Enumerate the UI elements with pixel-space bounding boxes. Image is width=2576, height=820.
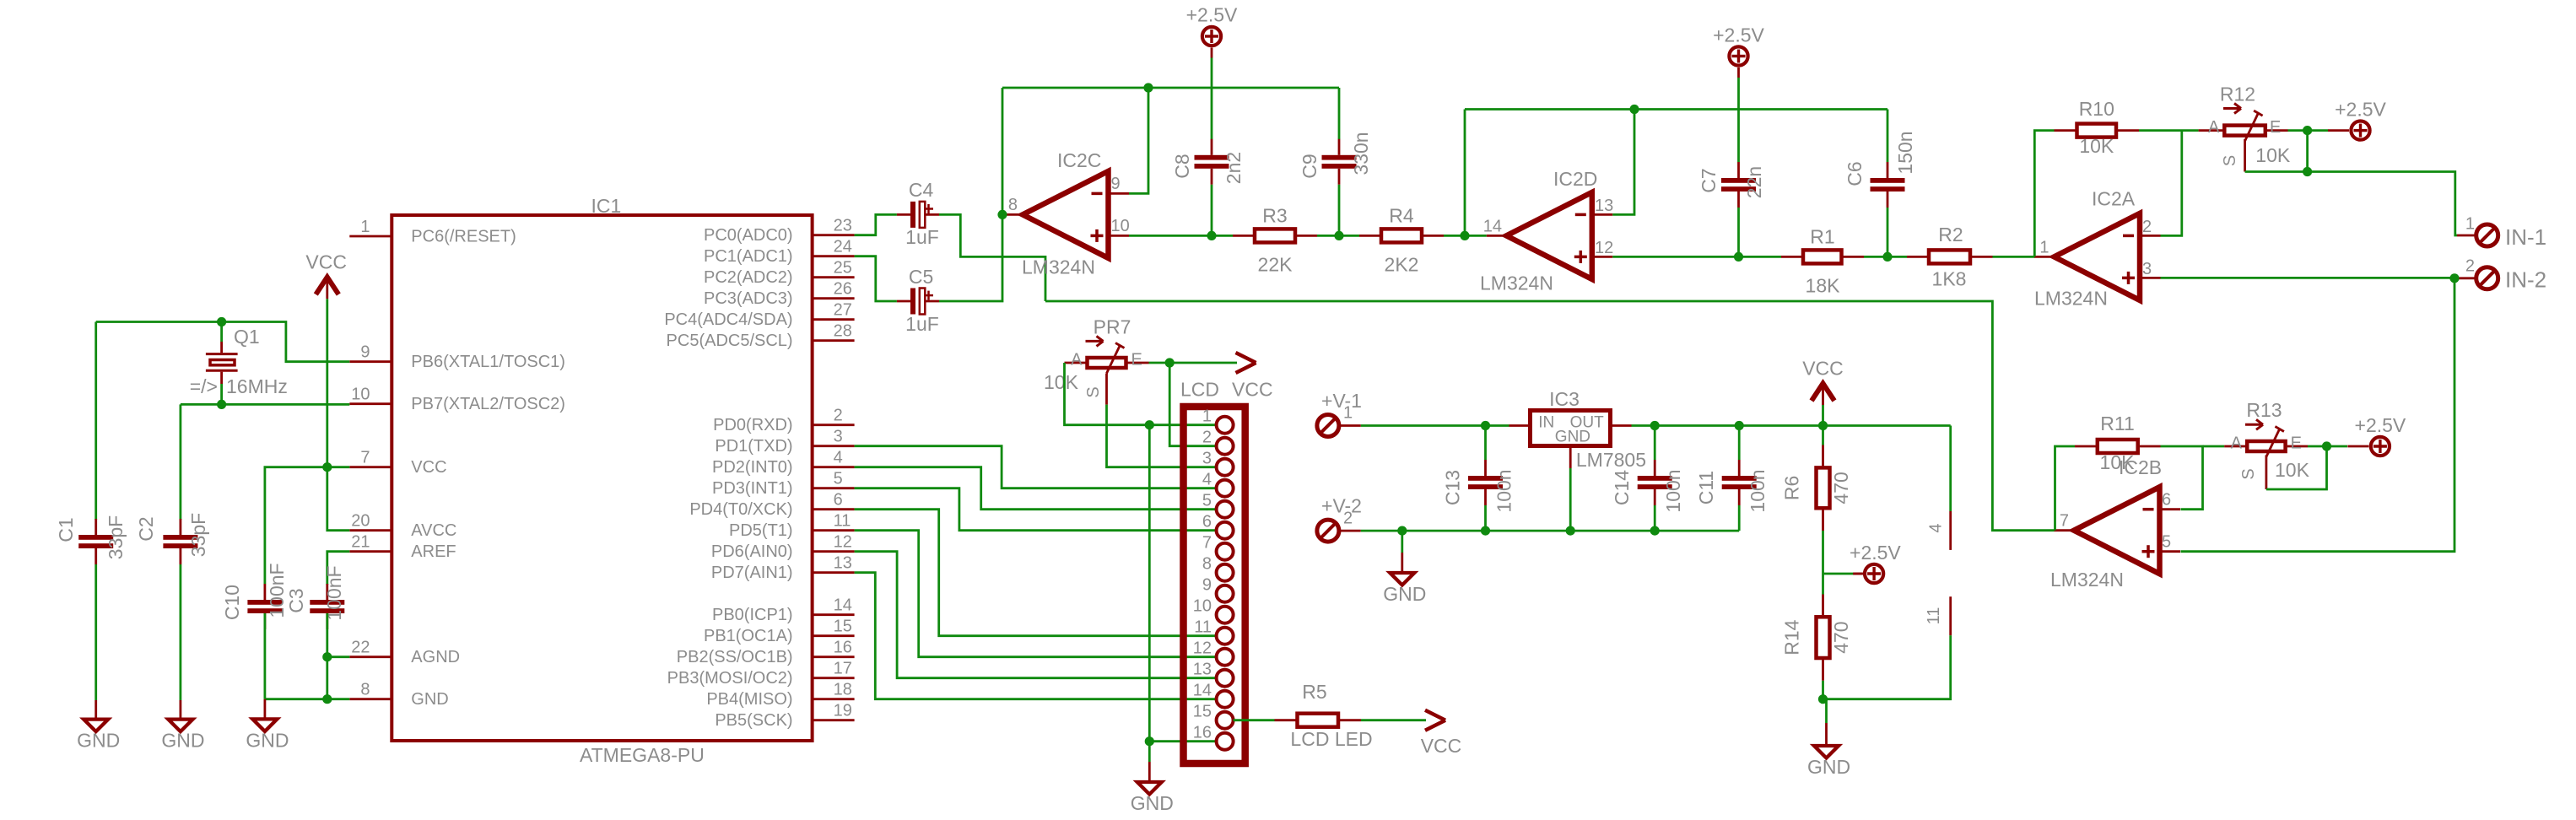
IC1 pin 18 PB4(MISO) [813,698,855,700]
svg-text:26: 26 [834,280,852,299]
connector IN-2 [2476,267,2498,289]
svg-text:330n: 330n [1350,132,1372,175]
wire PR7 S to LCD pin3 [1107,405,1217,467]
svg-text:IC3: IC3 [1549,388,1580,410]
svg-text:14: 14 [834,596,852,615]
svg-text:PD1(TXD): PD1(TXD) [715,437,792,456]
wire pin10 to R3 [1129,235,1212,237]
IC1 pin 15 PB1(OC1A) [813,634,855,637]
svg-text:PC2(ADC2): PC2(ADC2) [704,268,793,287]
svg-text:25: 25 [834,259,852,278]
resistor R1 [1739,250,1888,263]
svg-text:27: 27 [834,301,852,320]
wire pin11 to LCD pin12 [855,531,1217,657]
wire pin6 to LCD pin11 [855,510,1217,636]
resistor R10 [2055,124,2199,138]
svg-text:VCC: VCC [1421,735,1462,757]
svg-text:R10: R10 [2079,98,2114,120]
node junction R13 E [2322,441,2331,450]
wire +V-2 GND row [1339,530,1361,532]
wire IN-2 stub [2454,277,2476,279]
node junction C9 R3 right [1334,231,1343,240]
LCD pin 9 [1217,585,1234,602]
svg-text:2K2: 2K2 [1385,253,1419,275]
svg-text:IN: IN [1538,414,1554,432]
power VCC symbol above R6 [1802,358,1844,406]
wire C6 top from feedback row [1887,110,1889,163]
wire R11 row to R13 [2203,445,2225,448]
wire pin23 to C4 [855,214,897,235]
wire C6 bottom to row [1887,208,1889,256]
svg-text:18K: 18K [1806,274,1841,296]
capacitor C3 [310,584,344,629]
svg-text:33pF: 33pF [187,513,209,557]
R12 wiper arrow [2223,107,2241,110]
svg-text:AVCC: AVCC [411,521,456,540]
wire pin12 to R1 [1612,256,1738,258]
svg-text:C10: C10 [221,585,243,620]
svg-text:10K: 10K [2255,144,2291,166]
svg-text:PB1(OC1A): PB1(OC1A) [704,627,793,645]
wire Q1 top net [96,322,350,362]
wire PR7 E to VCC arrow [1149,362,1238,364]
wire C10 top to VCC node [265,467,327,584]
svg-text:VCC: VCC [411,458,446,477]
svg-text:PC3(ADC3): PC3(ADC3) [704,289,793,308]
wire C7 bottom to row [1737,208,1740,256]
svg-text:R14: R14 [1781,619,1803,655]
svg-text:2: 2 [1202,429,1212,447]
wire pin12 to LCD pin13 [855,552,1217,678]
capacitor C1 [78,519,113,564]
supply +2.5V above C8 [1186,4,1238,58]
node junction R14 GND [1818,694,1828,704]
IC1 pin 6 PD4(T0/XCK) [813,508,855,510]
wire IN-2 riser to pin5 [2181,278,2455,552]
wire C13 bottom lead [1484,505,1487,531]
IC1 pin 24 PC1(ADC1) [813,255,855,257]
LCD pin 2 [1217,438,1234,455]
node junction GND branch [1397,526,1407,536]
svg-text:+2.5V: +2.5V [1186,4,1238,26]
wire pin2 riser [2161,131,2182,236]
svg-text:R1: R1 [1810,225,1834,247]
wire C2 to GND [179,564,181,700]
svg-text:+2.5V: +2.5V [2335,99,2386,121]
LCD pin 8 [1217,564,1234,581]
svg-text:18: 18 [834,681,852,699]
IC1 pin 28 PC5(ADC5/SCL) [813,339,855,342]
R13 wiper arrow [2245,423,2263,426]
svg-text:Q1: Q1 [234,326,260,348]
svg-text:AGND: AGND [411,648,460,666]
svg-text:+2.5V: +2.5V [1713,24,1764,46]
svg-text:3: 3 [2142,260,2152,278]
IC1 pin 21 AREF [349,550,392,553]
node junction IN-2 [2449,273,2459,283]
svg-text:C7: C7 [1698,168,1720,192]
ground GND under LCD [1131,742,1174,814]
svg-text:28: 28 [834,322,852,341]
svg-text:AREF: AREF [411,542,456,561]
connector LCD box [1184,407,1245,763]
svg-text:C13: C13 [1442,470,1464,505]
IC1 pin 16 PB2(SS/OC1B) [813,655,855,658]
node junction IC2C output [997,210,1007,219]
svg-text:PB2(SS/OC1B): PB2(SS/OC1B) [677,648,793,666]
svg-text:S: S [1084,386,1103,397]
wire VCC row riser to pin4 [1949,426,1952,512]
IC1 pin 20 AVCC [349,529,392,531]
svg-text:33pF: 33pF [105,515,127,559]
node junction PR7 E VCC [1165,358,1175,367]
wire R13 E to +2.5V [2308,445,2347,448]
svg-text:2: 2 [834,407,843,425]
node junction C13 bottom [1481,526,1490,536]
wire C4 to long net [939,214,1045,301]
svg-text:2n2: 2n2 [1223,152,1245,184]
supply +2.5V right of R13 [2347,414,2406,456]
LCD pin 7 [1217,543,1234,560]
svg-text:7: 7 [2060,512,2069,531]
svg-text:9: 9 [1111,175,1121,193]
wire IC2D feedback riser [1464,110,1466,236]
svg-text:15: 15 [1193,703,1212,721]
op-amp IC2C [1003,171,1130,258]
wire LCD GND vertical [1148,425,1151,742]
potentiometer R12 [2199,111,2288,141]
IC1 pin 12 PD6(AIN0) [813,550,855,553]
svg-text:VCC: VCC [1802,358,1844,380]
wire VCC to pin20 [327,299,350,531]
svg-text:E: E [2291,434,2302,453]
svg-text:1K8: 1K8 [1932,268,1967,290]
svg-text:20: 20 [351,512,370,531]
svg-text:PD7(AIN1): PD7(AIN1) [711,564,793,582]
wire R13 S lead [2265,456,2267,490]
svg-text:PC4(ADC4/SDA): PC4(ADC4/SDA) [664,310,792,329]
wire S row to IN-1 [2308,172,2457,236]
power VCC arrow after R5 [1421,710,1462,757]
svg-text:8: 8 [1008,196,1018,214]
node junction LCD pin16 GND [1145,736,1154,746]
LCD pin 5 [1217,501,1234,518]
svg-text:GND: GND [1807,756,1850,778]
svg-text:16MHz: 16MHz [226,375,288,397]
wire VCC to R6 [1822,405,1824,445]
wire +V-1 to IC3 [1339,424,1361,427]
node junction Q1 top [217,317,226,326]
svg-text:PC1(ADC1): PC1(ADC1) [704,247,793,266]
svg-text:C4: C4 [909,179,934,201]
svg-text:PB3(MOSI/OC2): PB3(MOSI/OC2) [667,669,793,688]
wire IC3 GND lead [1569,446,1572,469]
svg-text:7: 7 [1202,534,1212,553]
svg-text:100n: 100n [1662,469,1684,512]
node junction C14 bottom [1650,526,1660,536]
svg-text:12: 12 [834,533,852,552]
wire R14 bottom [1822,660,1824,681]
svg-text:LM324N: LM324N [1022,256,1095,278]
op-amp IC2B [2055,487,2181,574]
wire VCC riser to LCD pin2 [1169,363,1216,446]
node junction VCC R6 top [1818,421,1828,430]
svg-text:+2.5V: +2.5V [2355,414,2406,436]
ground GND below R14 [1807,699,1850,778]
IC1 pin 19 PB5(SCK) [813,719,855,721]
svg-text:PC0(ADC0): PC0(ADC0) [704,226,793,245]
svg-text:LM7805: LM7805 [1576,449,1646,471]
wire +2.5V branch [1823,573,1855,575]
node junction pin22 [322,652,332,661]
svg-text:GND: GND [411,690,448,709]
svg-text:A: A [2208,118,2220,137]
ground GND below +V-2 row [1383,531,1426,605]
svg-text:C1: C1 [55,517,77,542]
svg-text:4: 4 [1202,471,1212,489]
svg-text:10: 10 [1111,217,1130,235]
wire R13 S loop [2266,446,2327,489]
svg-text:C11: C11 [1695,471,1717,505]
supply +2.5V mid divider [1850,542,1901,583]
IC1 pin 8 GND [349,698,392,700]
IN-1 pin stub [2457,235,2476,237]
wire +2.5V to C7 [1737,78,1740,162]
wire pin10 row [181,403,349,406]
svg-text:R12: R12 [2220,84,2255,105]
svg-text:LCD: LCD [1180,379,1219,401]
LCD pin 16 [1217,733,1234,750]
potentiometer R13 [2224,427,2308,457]
svg-text:R13: R13 [2246,399,2282,421]
svg-text:PB0(ICP1): PB0(ICP1) [712,606,793,624]
svg-text:470: 470 [1830,472,1852,504]
svg-text:16: 16 [834,639,852,657]
power VCC arrow right of PR7 [1232,353,1273,401]
svg-text:8: 8 [1202,555,1212,574]
svg-text:IN-1: IN-1 [2505,224,2546,250]
ground GND under C2 [161,700,204,752]
resistor R2 [1887,250,2034,263]
svg-text:2: 2 [2465,257,2475,276]
resistor R6 [1817,467,1830,508]
svg-text:C2: C2 [135,516,157,541]
svg-text:PB6(XTAL1/TOSC1): PB6(XTAL1/TOSC1) [411,353,565,371]
wire VCC branch to pin7 [327,466,350,468]
wire E to S vertical [2306,131,2309,172]
svg-text:PB7(XTAL2/TOSC2): PB7(XTAL2/TOSC2) [411,395,565,413]
svg-text:12: 12 [1595,239,1613,257]
svg-text:22n: 22n [1743,166,1765,198]
node junction R4 IC2D output [1460,231,1469,240]
IC IC1 ATMEGA8-PU box [392,215,812,741]
svg-text:13: 13 [834,554,852,573]
svg-text:LM324N: LM324N [2050,569,2124,591]
wire pin24 to C5 [855,256,897,301]
svg-text:1uF: 1uF [905,313,939,335]
wire pin3 to IN-2 [2161,277,2455,279]
IC1 pin 11 PD5(T1) [813,529,855,531]
svg-text:=/>: =/> [190,375,218,397]
wire pin8 branch [327,698,350,700]
svg-text:100nF: 100nF [266,563,288,618]
IC2 power pin 4 stub [1949,511,1952,550]
resistor R5 [1275,714,1427,727]
svg-text:IN-2: IN-2 [2505,267,2546,293]
node junction VCC pin7 [322,462,332,472]
wire LCD pin15 to R5 [1234,719,1275,721]
svg-text:9: 9 [360,343,370,362]
svg-text:A: A [1071,351,1083,370]
svg-text:2: 2 [1343,510,1353,528]
wire C11 top lead [1738,426,1741,461]
supply +2.5V above C7 [1713,24,1764,78]
capacitor C4 [897,202,939,228]
svg-text:6: 6 [2162,491,2171,510]
wire +2.5V to C8 [1211,58,1213,140]
resistor R3 [1212,229,1339,242]
svg-text:5: 5 [1202,492,1212,510]
node junction IC3 GND [1566,526,1575,536]
svg-text:R3: R3 [1262,204,1287,226]
IC1 pin 26 PC3(ADC3) [813,297,855,299]
op-amp IC2D [1487,192,1613,279]
node junction C14 top [1650,421,1660,430]
svg-text:+V-2: +V-2 [1321,495,1362,517]
wire GND row to pin11 riser [1823,635,1951,699]
svg-text:14: 14 [1483,217,1502,235]
svg-text:16: 16 [1193,724,1212,742]
capacitor C8 [1195,139,1229,185]
svg-text:E: E [2270,118,2281,137]
svg-text:S: S [2221,155,2239,166]
svg-text:GND: GND [246,729,289,751]
svg-text:GND: GND [161,730,204,752]
svg-text:GND: GND [77,730,120,752]
wire pin13 riser [1612,110,1634,215]
wire C9 bottom to row [1338,185,1341,236]
svg-text:1: 1 [1202,407,1212,426]
node junction C13 top [1481,421,1490,430]
LCD pin 10 [1217,607,1234,623]
wire C1 to GND [95,564,97,700]
svg-text:PC5(ADC5/SCL): PC5(ADC5/SCL) [667,332,793,350]
wire R12 S row [2245,170,2308,173]
svg-text:PC6(/RESET): PC6(/RESET) [411,228,516,246]
wire R12 E to +2.5V [2288,129,2329,132]
svg-text:150n: 150n [1894,131,1916,174]
capacitor C13 [1468,460,1503,505]
svg-text:S: S [2239,468,2258,479]
svg-text:A: A [2231,434,2243,453]
LCD pin 11 [1217,628,1234,645]
wire C1 branch [95,322,97,521]
wire C10 bottom [263,613,266,699]
svg-text:E: E [1131,351,1142,370]
svg-text:R5: R5 [1302,681,1326,703]
wire pin3 to LCD pin4 [855,446,1217,488]
svg-text:PD3(INT1): PD3(INT1) [712,479,793,498]
IC1 pin 5 PD3(INT1) [813,487,855,489]
svg-text:+V-1: +V-1 [1321,390,1362,412]
svg-text:GND: GND [1131,792,1174,814]
svg-text:6: 6 [1202,513,1212,531]
svg-text:R6: R6 [1781,476,1803,500]
LCD pin 13 [1217,670,1234,687]
svg-text:11: 11 [1194,618,1212,637]
svg-text:C6: C6 [1844,161,1866,186]
node junction C7 R1 left [1734,252,1743,262]
wire pin6 riser [2161,446,2203,510]
LCD pin 15 [1217,712,1234,729]
svg-text:IC2A: IC2A [2092,188,2136,210]
node junction C6 R1 right R2 [1882,252,1892,262]
svg-text:21: 21 [351,533,370,552]
IC1 pin 2 PD0(RXD) [813,423,855,426]
capacitor C10 [247,584,282,629]
svg-text:5: 5 [2162,533,2171,552]
wire C14 bottom lead [1654,505,1656,531]
node junction C8 R3 left [1207,231,1216,240]
svg-text:11: 11 [1925,607,1943,625]
svg-text:23: 23 [834,217,852,235]
svg-text:8: 8 [360,681,370,699]
svg-text:LCD LED: LCD LED [1290,728,1372,750]
voltage regulator IC3 box [1531,411,1611,446]
wire IC2C feedback row [1002,87,1339,89]
svg-text:C14: C14 [1611,470,1633,505]
svg-text:VCC: VCC [305,251,347,273]
wire IC2C feedback riser [1002,88,1004,214]
svg-text:4: 4 [1927,523,1946,532]
node junction R12 E [2303,126,2312,135]
svg-text:C8: C8 [1171,154,1193,178]
svg-text:PD2(INT0): PD2(INT0) [712,458,793,477]
IC1 pin 9 PB6(XTAL1/TOSC1) [349,360,392,363]
node junction S row [2303,167,2312,176]
svg-text:14: 14 [1193,682,1212,700]
power VCC symbol near IC1 [305,251,347,299]
svg-text:GND: GND [1555,429,1590,446]
PR7 wiper arrow [1086,340,1104,343]
svg-text:3: 3 [1202,450,1212,468]
wire C13 top lead [1484,426,1487,461]
IC1 pin 22 AGND [349,655,392,658]
svg-text:ATMEGA8-PU: ATMEGA8-PU [580,744,705,766]
svg-text:C9: C9 [1299,154,1320,178]
svg-text:19: 19 [834,702,852,720]
crystal Q1 [206,322,238,405]
wire pin5 to LCD pin6 [855,488,1217,531]
wire IC3 out row to pin4 riser [1632,424,1951,427]
capacitor C11 [1722,460,1757,505]
svg-text:10: 10 [1193,597,1212,616]
svg-text:R11: R11 [2100,413,2135,434]
svg-text:10: 10 [351,386,370,404]
svg-text:10K: 10K [2079,135,2114,157]
wire pin22 branch [327,655,350,658]
svg-text:2: 2 [2142,218,2152,236]
svg-text:11: 11 [834,512,851,531]
wire IC2D output stub wire [1465,235,1487,237]
IC1 pin 23 PC0(ADC0) [813,234,855,236]
svg-text:IC2C: IC2C [1057,149,1101,171]
svg-text:PB5(SCK): PB5(SCK) [715,711,792,730]
IC1 pin 17 PB3(MOSI/OC2) [813,677,855,679]
node junction Q1 bottom pin10 [217,400,226,409]
svg-text:LM324N: LM324N [1480,272,1553,294]
svg-text:GND: GND [1383,583,1426,605]
